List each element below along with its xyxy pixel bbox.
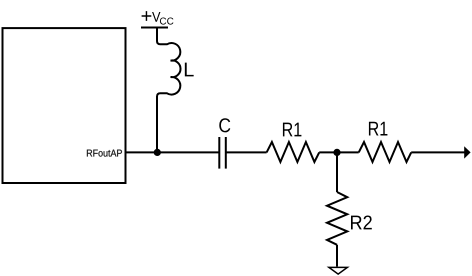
label R2 (351, 215, 372, 229)
output arrowhead (464, 146, 470, 158)
resistor R2 (327, 192, 347, 245)
wire: R2 to ground (336, 245, 338, 267)
label R1 (left) (283, 123, 302, 137)
inductor L (157, 41, 181, 97)
IC block (3, 28, 126, 183)
wire: rail to inductor (156, 28, 158, 42)
label R1 (right) (369, 122, 388, 136)
wire: R1 to node B (319, 151, 337, 153)
node B junction dot (333, 149, 340, 156)
capacitor C (219, 137, 226, 169)
pin label RFoutAP (87, 150, 122, 157)
label L (185, 63, 194, 77)
ground (329, 267, 348, 274)
wire: R1 right to output arrow (411, 151, 465, 153)
resistor R1 (left) (267, 142, 320, 162)
wire: node B down to R2 (336, 152, 338, 192)
wire: node B to R1 right (337, 151, 359, 153)
wire: capacitor to R1 left (226, 151, 267, 153)
wire: inductor to node A (156, 96, 158, 152)
VCC rail (141, 27, 168, 29)
node A junction dot (154, 149, 161, 156)
label C (219, 118, 230, 132)
wire: box to capacitor (127, 151, 220, 153)
resistor R1 (right) (359, 142, 412, 162)
+VCC label (142, 11, 174, 24)
